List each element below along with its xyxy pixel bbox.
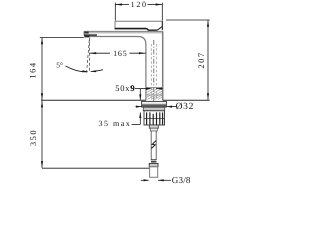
5 degree spray axis dashed vertical <box>89 38 91 73</box>
50x9 leader left with arrow <box>135 88 150 90</box>
svg-text:G3/8: G3/8 <box>172 175 191 185</box>
nut ribs <box>147 112 163 124</box>
connector body <box>150 167 158 178</box>
hose tube right edge <box>155 131 157 160</box>
hidden water channel dashed right <box>155 44 157 100</box>
dimension 165 <box>90 49 146 58</box>
spout tip dark underside <box>84 34 97 36</box>
svg-text:350: 350 <box>28 129 38 146</box>
svg-text:207: 207 <box>196 51 206 68</box>
svg-text:164: 164 <box>28 61 38 78</box>
svg-text:120: 120 <box>131 0 148 9</box>
dimension 207 <box>166 20 210 100</box>
flange dark base band <box>142 105 166 107</box>
spout inner top line <box>85 32 163 34</box>
50x9 leader right with arrow <box>156 88 163 90</box>
hose tube left edge <box>150 131 152 160</box>
collar step <box>150 128 157 131</box>
thread hatching <box>147 88 163 99</box>
spout bottom edge with corner into column <box>90 37 146 101</box>
nut mid line <box>144 117 165 119</box>
handle top edge <box>115 20 162 22</box>
deck line right <box>163 99 210 101</box>
svg-text:Ø32: Ø32 <box>176 102 194 112</box>
spout tip inner dark box <box>84 32 89 34</box>
hidden water channel dashed left <box>150 44 152 100</box>
flange mid line <box>142 103 167 105</box>
svg-text:165: 165 <box>113 49 127 58</box>
handle bottom edge <box>115 28 146 30</box>
svg-text:5°: 5° <box>56 61 63 70</box>
nut bottom collar <box>149 125 158 128</box>
hose break zigzag <box>151 141 156 149</box>
handle wedge diagonal <box>157 26 162 30</box>
aerator <box>84 35 89 37</box>
5 degree tilted dashed line <box>87 40 90 73</box>
svg-text:35 max: 35 max <box>99 119 132 128</box>
handle neck step <box>146 29 157 31</box>
handle left edge <box>114 21 116 29</box>
spout left end <box>83 31 85 35</box>
dimension 35 max <box>99 89 142 129</box>
handle right face <box>161 21 163 30</box>
dimension G3/8 <box>141 175 191 185</box>
dimension 164 <box>28 38 84 100</box>
hose collar <box>149 163 158 166</box>
center axis dash-dot <box>153 40 155 128</box>
svg-text:9: 9 <box>131 83 135 93</box>
5 degree arc left with arrow <box>66 66 88 72</box>
mounting nut body <box>144 111 165 125</box>
deck line left <box>41 99 146 101</box>
spout top edge <box>84 30 163 32</box>
thread section top line <box>146 87 163 89</box>
escutcheon flange <box>142 101 167 107</box>
5 degree arc right with arrow <box>91 70 103 72</box>
dimension 120 <box>115 0 162 21</box>
ferrule rings <box>151 160 156 163</box>
dimension Ø32 <box>136 102 195 112</box>
dimension 350 <box>28 101 149 169</box>
column right edge <box>162 31 164 100</box>
locknut band <box>143 107 164 110</box>
